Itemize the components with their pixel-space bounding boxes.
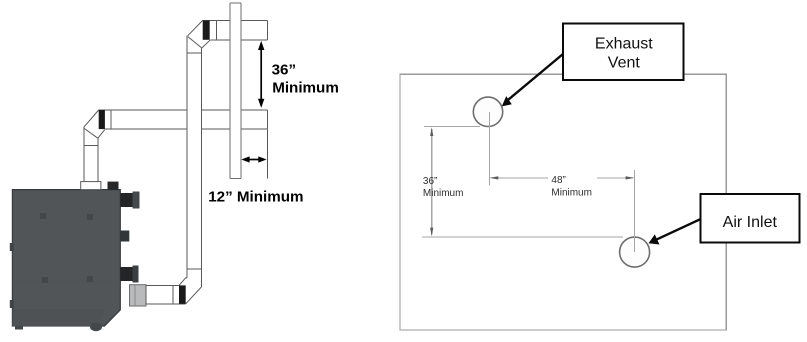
pipe C right edge	[97, 138, 99, 181]
elbow E3 outer diagonal	[186, 287, 202, 304]
bottom pipe joint	[172, 285, 174, 304]
top pipe joint	[215, 20, 217, 39]
elbow E2 fill	[84, 110, 105, 138]
48in dim line left segment	[491, 177, 548, 179]
vertical pipe A fill (over pipe B)	[187, 36, 202, 287]
svg-text:36”: 36”	[272, 62, 297, 79]
black band on elbow E2	[99, 110, 105, 129]
elbow E3 miter line	[186, 277, 202, 287]
wall outline rectangle	[400, 74, 726, 330]
exhaust vent callout arrow	[502, 54, 563, 106]
air inlet riser line	[634, 170, 636, 252]
pipe A upper joint	[187, 52, 202, 54]
pipe B bottom edge	[105, 128, 267, 130]
elbow E2 lower-right diagonal	[98, 130, 105, 139]
svg-text:Minimum: Minimum	[423, 188, 464, 199]
boiler body	[12, 190, 120, 327]
small dim arrowheads	[430, 127, 634, 236]
svg-text:12” Minimum: 12” Minimum	[208, 188, 303, 205]
pipe C joint	[84, 144, 98, 146]
pipe B joint	[110, 110, 112, 129]
wall cross-section strip	[230, 3, 241, 178]
intake pipe B fill	[99, 110, 268, 129]
pipe C left edge	[83, 127, 85, 181]
bottom pipe bottom edge	[146, 303, 186, 305]
top extension line	[424, 126, 480, 128]
pipe C fill	[84, 128, 98, 182]
elbow E1 upper diagonal	[188, 20, 203, 35]
pipe B top edge	[99, 109, 268, 111]
exhaust center drop line	[488, 112, 490, 186]
svg-text:Air Inlet: Air Inlet	[723, 214, 778, 231]
black band on bottom pipe	[179, 285, 186, 303]
boiler screws	[40, 213, 93, 283]
boiler right connector upper	[120, 192, 139, 209]
elbow E1 lower-left diagonal	[188, 37, 202, 48]
bottom pipe left cap	[145, 285, 147, 304]
top flange on boiler	[81, 182, 101, 190]
12in dimension arrow (horizontal, bold)	[241, 156, 266, 162]
elbow E2 lower-left diagonal	[84, 128, 98, 138]
pipe A left edge	[186, 36, 188, 278]
pipe A right edge	[201, 48, 203, 287]
pipe B and elbow E2 outlines	[84, 110, 267, 182]
pipe A lower joint	[187, 268, 202, 270]
exhaust vent label box	[563, 23, 683, 80]
bottom extension line	[422, 236, 623, 238]
bottom pipe and elbow E3 outlines	[146, 285, 186, 304]
top pipe end cap	[266, 20, 268, 39]
elbow E1 and top pipe fills	[188, 20, 267, 48]
bottom pipe top edge	[146, 284, 179, 286]
svg-text:36”: 36”	[423, 176, 437, 187]
svg-text:Minimum: Minimum	[551, 188, 592, 199]
svg-text:Minimum: Minimum	[272, 80, 339, 97]
boiler feet	[15, 323, 102, 331]
boiler top black box	[108, 182, 119, 190]
air inlet label box	[700, 194, 799, 242]
air inlet callout arrow	[649, 219, 701, 244]
svg-text:48”: 48”	[551, 175, 565, 186]
elbow E2 upper diagonal	[84, 110, 99, 127]
black band on elbow E1	[203, 20, 210, 39]
top pipe top edge	[203, 19, 268, 21]
36in dim line	[431, 129, 433, 235]
boiler right connector lower	[120, 266, 138, 283]
bottom gray adapter at boiler outlet	[130, 285, 147, 306]
elbow E1 lower-right diagonal	[202, 40, 211, 48]
bottom pipe and elbow E3 fills	[146, 277, 202, 304]
elbow E3 inner diagonal	[179, 277, 186, 285]
pipe fills group	[84, 110, 267, 182]
top pipe bottom edge	[210, 39, 267, 41]
12in extension line at pipe ends	[266, 130, 268, 179]
exhaust vent circle	[473, 97, 502, 126]
48in dim line right segment	[597, 177, 633, 179]
36in dimension arrow (vertical, bold)	[258, 41, 264, 108]
pipe B end cap	[266, 110, 268, 129]
boiler left hinge tabs	[10, 243, 14, 308]
svg-text:Vent: Vent	[608, 55, 641, 72]
dimension lines (right)	[422, 112, 635, 252]
svg-text:Exhaust: Exhaust	[595, 36, 653, 53]
air inlet circle	[620, 237, 650, 267]
pipe A and top pipe outlines	[187, 20, 267, 287]
boiler right small tab	[120, 231, 129, 242]
